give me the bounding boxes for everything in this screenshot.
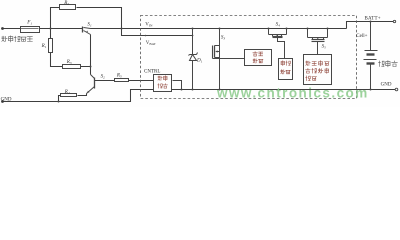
svg-text:Cell+: Cell+	[356, 34, 367, 39]
wire 充电控制 output to rail	[173, 81, 182, 90]
svg-text:www.cntronics.com: www.cntronics.com	[216, 86, 369, 101]
zener diode D1	[189, 29, 198, 90]
svg-text:VIN: VIN	[145, 22, 153, 27]
node dot S3 source on ground rail	[219, 89, 221, 91]
node dot S5 left on main wire	[307, 28, 309, 30]
transistor S2	[87, 75, 95, 94]
node dot R4 drop on rail	[58, 101, 60, 103]
svg-text:VBAT: VBAT	[146, 41, 157, 46]
wire S2 base row through R5 into IC	[95, 80, 154, 82]
resistor R4	[61, 94, 77, 97]
svg-text:CNTRL: CNTRL	[144, 70, 160, 75]
node dot S4 left on main wire	[268, 28, 270, 30]
node dot D1 tee with Vbat wire	[192, 35, 194, 37]
svg-text:BATT+: BATT+	[365, 17, 381, 22]
wire R4 row and drop to ground rail	[59, 94, 87, 102]
resistor R5	[115, 79, 129, 82]
block 充电控制	[154, 75, 172, 92]
block 电流检测	[279, 59, 293, 80]
node dot D1 anode on ground rail	[192, 89, 194, 91]
MOSFET S3	[213, 29, 245, 90]
svg-text:D1: D1	[196, 58, 203, 64]
node dot D1 top on main wire	[192, 28, 194, 30]
resistor R3	[63, 65, 81, 69]
svg-text:F1: F1	[26, 20, 32, 26]
node dot junction fuse branch	[50, 28, 52, 30]
fuse F1	[21, 27, 40, 33]
block 手机低电压及短路保护	[304, 55, 332, 85]
wire main line right of S1 collector to BATT+ step	[91, 28, 347, 30]
svg-text:S4: S4	[276, 21, 281, 27]
node dot S3 drain on main wire	[219, 28, 221, 30]
svg-text:R2: R2	[63, 0, 69, 6]
resistor R2	[60, 5, 76, 10]
svg-text:S1: S1	[87, 21, 92, 27]
dashed IC box	[141, 16, 357, 99]
node dot control block output on ground rail	[181, 89, 183, 91]
node dot S5 right on main wire	[327, 28, 329, 30]
node dot R2 drop on main wire	[121, 28, 123, 30]
wire R1/R2 branch vertical at junction x=50.4	[51, 8, 193, 36]
svg-text:GND: GND	[1, 98, 12, 103]
wire bottom ground rail with step	[3, 90, 396, 102]
svg-text:R1: R1	[41, 43, 47, 49]
block 安全分流	[245, 50, 272, 66]
svg-text:R3: R3	[66, 59, 72, 65]
node dot on Vbat wire at pin	[145, 35, 147, 37]
MOSFET S5	[308, 29, 328, 55]
wire R1 leg down to R3 row	[51, 29, 91, 67]
node dot battery positive on BATT+ wire	[370, 21, 372, 23]
terminal input circle	[1, 27, 4, 30]
ground terminal right	[395, 88, 398, 91]
node dot S4 right on main wire	[286, 28, 288, 30]
wire main input line	[3, 28, 83, 30]
node dot R3 to S1 emitter line	[90, 66, 92, 68]
svg-text:S2: S2	[101, 73, 106, 79]
wire BATT+ step and top output	[347, 22, 394, 29]
ground terminal left	[1, 100, 4, 103]
svg-text:R4: R4	[64, 89, 70, 95]
resistor R1	[49, 39, 53, 53]
transistor S1	[83, 27, 91, 35]
svg-text:S5: S5	[322, 44, 327, 50]
label 锂电池	[379, 61, 398, 67]
svg-text:S3: S3	[221, 34, 226, 40]
svg-text:R5: R5	[116, 72, 122, 78]
terminal BATT+	[393, 20, 395, 22]
wire S1 emitter vertical down to S2	[90, 35, 92, 75]
svg-text:GND: GND	[381, 83, 392, 88]
MOSFET S4	[269, 29, 287, 59]
battery cell stack	[364, 22, 378, 90]
label 充电器输入	[2, 36, 33, 42]
node dot battery negative on ground rail	[370, 89, 372, 91]
